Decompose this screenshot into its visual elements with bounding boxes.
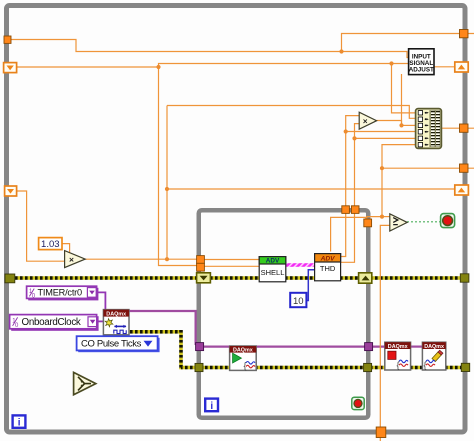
orange wire to array row2 [167, 106, 417, 119]
iteration terminal outer [13, 415, 26, 428]
svg-text:CO Pulse Ticks: CO Pulse Ticks [81, 339, 142, 350]
purple task wire create->tunnel [129, 311, 196, 345]
purple channel wire TIMER/ctr0 [97, 292, 106, 310]
svg-text:10: 10 [293, 296, 304, 307]
error shift register inner-right [359, 273, 372, 283]
shift register left SR1 [4, 63, 17, 73]
magenta wire SHELL->THD [286, 263, 315, 267]
svg-text:SHELL: SHELL [261, 268, 285, 277]
DAQmx create channel node [103, 310, 129, 335]
olive error tunnel outer-right [460, 274, 469, 282]
orange wire inner loop to THD top input [331, 217, 366, 251]
orange tunnel inner-top 2 [351, 206, 359, 214]
error wire main row y=278 [9, 276, 463, 280]
numeric constant 1.03 [39, 238, 62, 250]
orange wire tunnel1->SHELL [205, 259, 260, 261]
orange wire to array row5 [355, 137, 417, 139]
orange wire junction to array row3 [402, 124, 417, 126]
greater-or-equal node [390, 214, 407, 231]
svg-text:i: i [18, 418, 21, 429]
purple task wire tunnel->start [202, 346, 230, 348]
error wire into inner loop y=367.5 [181, 366, 230, 370]
orange wire C: SR1 to ISA [8, 64, 409, 68]
error wire start->stop y=367.5 [256, 366, 386, 370]
orange tunnel inner-right [364, 219, 372, 227]
svg-text:i: i [210, 401, 213, 412]
error shift register inner-left [197, 273, 211, 283]
error wire counter: create node out [129, 330, 181, 334]
purple channel wire OnboardClock [97, 320, 105, 322]
junction dots [339, 49, 343, 53]
orange wire tunnel2->SHELL [205, 265, 260, 267]
multiply node x2 [359, 112, 376, 129]
purple task wire stop->clear [410, 346, 423, 348]
error wire stop->clear [411, 366, 424, 370]
svg-text:ADV: ADV [320, 256, 336, 263]
svg-text:THD: THD [320, 264, 336, 273]
orange tunnel right y=128 [460, 124, 469, 132]
orange wire to right shift register y=189 [167, 188, 457, 190]
orange wire ISA bottom down to junction [401, 74, 403, 125]
orange tunnel inner-top 1 [342, 206, 350, 214]
purple tunnel inner-left [196, 343, 204, 351]
orange tunnel inner-left 2 [197, 263, 205, 271]
iteration terminal inner [205, 399, 218, 412]
orange wire 1.03 to multiply1 top input [62, 244, 70, 254]
orange tunnel right y=33.5 [460, 30, 469, 38]
purple task wire start->stop [256, 346, 386, 348]
purple tunnel inner-right [365, 343, 373, 351]
orange wire multiply2 out to junction [376, 121, 401, 126]
orange tunnel inner-left 1 [197, 256, 205, 264]
numeric constant 10 [290, 293, 306, 307]
index/build array node [416, 109, 442, 149]
orange wire ISA output to right shift register [434, 66, 456, 68]
error wire clear->tunnel [445, 366, 463, 370]
DAQmx stop task node [385, 342, 411, 370]
merge errors node [74, 372, 96, 394]
error wire vertical x=181 [179, 330, 183, 369]
multiply node x1 [65, 251, 86, 268]
green boolean wire GTE to stop [407, 221, 441, 223]
INPUT SIGNAL ADJUST subVI [409, 49, 434, 75]
orange wire SR1 net down to inner-left tunnel2 [159, 67, 201, 266]
svg-text:TIMER/ctr0: TIMER/ctr0 [38, 288, 83, 298]
svg-text:1.03: 1.03 [41, 239, 60, 250]
svg-text:×: × [363, 117, 368, 126]
stop button inner loop [352, 397, 364, 409]
orange wire multiply1 out to inner-left tunnel1 [85, 258, 200, 260]
ADV SHELL subVI [259, 257, 286, 282]
orange tunnel top-left [4, 36, 11, 43]
orange tunnel right y=168 [460, 164, 469, 172]
orange wire tunnel1 up to multiply2 top input [346, 116, 360, 206]
orange wire B: top-left tunnel to ISA [8, 40, 409, 58]
svg-text:DAQmx: DAQmx [388, 344, 408, 350]
DAQmx clear task node [422, 342, 445, 370]
orange wire GTE bottom input vertical to bottom tunnel [380, 225, 390, 441]
DAQmx channel constant OnboardClock [10, 315, 99, 331]
orange wire branch to right tunnel y=168 [382, 167, 474, 169]
orange vertical x=167 [166, 106, 168, 260]
orange wire C branch to array row1 [392, 64, 418, 113]
svg-text:ADV: ADV [266, 258, 280, 265]
svg-text:ADJUST: ADJUST [409, 66, 434, 73]
orange wire branch to top-right tunnel [342, 34, 474, 52]
svg-text:OnboardClock: OnboardClock [22, 317, 81, 328]
orange wire array row6 down right chain [382, 145, 417, 217]
blue wire 10 const to THD [307, 270, 315, 301]
orange wire THD out1 up to inner-top tunnel1 [341, 207, 346, 257]
olive error tunnel outer-right2 [461, 363, 469, 371]
orange wire array out to right tunnel [441, 127, 474, 129]
shift register right SR1 [455, 62, 468, 72]
olive error tunnel outer-left [5, 274, 15, 283]
stop button top-right [441, 214, 455, 228]
shift register left SR2 [5, 186, 17, 196]
orange wire to array row4 [346, 131, 416, 133]
olive error tunnel inner-right [364, 363, 372, 371]
svg-text:DAQmx: DAQmx [233, 348, 253, 354]
olive error tunnel inner-left [195, 363, 203, 371]
orange wire THD out2 up to inner-top tunnel2 [341, 207, 355, 262]
orange tunnel bottom [376, 427, 386, 438]
inner while loop border [199, 210, 369, 418]
orange wire junction to inner-right tunnel [367, 217, 382, 221]
orange wire SR2 to multiply1 bottom input [17, 191, 67, 261]
svg-text:DAQmx: DAQmx [424, 344, 444, 350]
DAQmx channel constant TIMER/ctr0 [27, 286, 99, 300]
ring constant CO Pulse Ticks [77, 336, 160, 352]
DAQmx start task node [230, 346, 257, 371]
orange wire tunnel2 up to multiply2 bottom input [355, 124, 360, 206]
ADV THD subVI [315, 254, 341, 281]
svg-text:DAQmx: DAQmx [106, 311, 126, 317]
svg-text:×: × [69, 254, 74, 264]
shift register right SR2 [455, 185, 469, 195]
orange wire junction to GTE top input [382, 216, 390, 218]
